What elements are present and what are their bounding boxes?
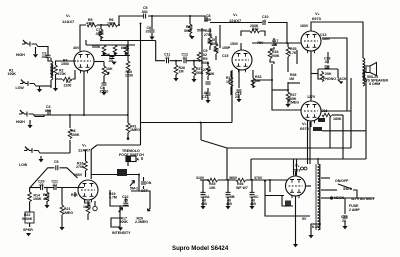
svg-text:310V: 310V [196, 176, 205, 180]
svg-text:HIGH: HIGH [16, 120, 25, 124]
svg-text:2 AMP: 2 AMP [349, 208, 360, 212]
svg-text:450: 450 [201, 202, 207, 206]
svg-text:LOW: LOW [19, 163, 28, 167]
svg-text:75V: 75V [257, 41, 264, 45]
svg-text:.001: .001 [141, 10, 148, 14]
svg-text:.05: .05 [95, 32, 100, 36]
svg-text:ON: ON [146, 181, 152, 185]
svg-text:20K: 20K [325, 72, 332, 76]
svg-text:1500: 1500 [61, 62, 69, 66]
svg-text:10K: 10K [209, 186, 216, 190]
svg-text:1MEG: 1MEG [289, 101, 299, 105]
svg-text:PHONO JACK: PHONO JACK [323, 77, 347, 81]
svg-text:20: 20 [146, 30, 150, 34]
svg-text:10K: 10K [106, 67, 113, 71]
svg-text:100K: 100K [71, 133, 80, 137]
svg-text:C5: C5 [54, 160, 59, 164]
svg-text:2.2MEG: 2.2MEG [135, 220, 148, 224]
svg-text:C15: C15 [222, 54, 229, 58]
svg-text:C15: C15 [202, 95, 209, 99]
svg-text:160V: 160V [300, 24, 309, 28]
svg-text:600K: 600K [121, 46, 130, 50]
svg-text:250K: 250K [206, 72, 215, 76]
svg-text:LOW: LOW [16, 86, 25, 90]
svg-text:.005: .005 [204, 18, 211, 22]
svg-text:450: 450 [226, 202, 232, 206]
svg-text:ON/OFF: ON/OFF [335, 179, 349, 183]
svg-text:180V: 180V [322, 37, 331, 41]
svg-text:25: 25 [235, 95, 239, 99]
svg-text:500K: 500K [92, 45, 101, 49]
svg-text:150V: 150V [230, 42, 239, 46]
svg-text:470K: 470K [58, 72, 67, 76]
svg-text:127V: 127V [307, 95, 316, 99]
svg-text:V₆: V₆ [295, 163, 300, 168]
svg-text:5V: 5V [302, 217, 307, 221]
svg-text:270K: 270K [76, 165, 85, 169]
svg-text:25/10: 25/10 [100, 90, 109, 94]
svg-text:40V: 40V [73, 46, 80, 50]
svg-text:465: 465 [43, 197, 49, 201]
svg-text:.02: .02 [182, 56, 187, 60]
svg-text:5600K: 5600K [22, 217, 33, 221]
svg-text:.02: .02 [52, 183, 57, 187]
svg-text:200K: 200K [250, 24, 259, 28]
svg-text:450: 450 [250, 202, 256, 206]
svg-text:6973: 6973 [312, 16, 322, 21]
svg-text:56K: 56K [254, 79, 261, 83]
svg-text:370V: 370V [254, 176, 263, 180]
svg-text:1MEG: 1MEG [63, 211, 73, 215]
svg-text:INTENSITY: INTENSITY [112, 231, 131, 235]
svg-text:.05: .05 [39, 183, 44, 187]
svg-text:.02: .02 [165, 56, 170, 60]
svg-text:R16: R16 [71, 193, 78, 197]
svg-text:SPKR: SPKR [23, 228, 33, 232]
svg-text:V₂: V₂ [233, 12, 238, 17]
svg-text:150P: 150P [222, 46, 231, 50]
svg-text:500K: 500K [201, 61, 210, 65]
svg-text:5Y3: 5Y3 [294, 169, 300, 173]
svg-text:WF W7: WF W7 [236, 186, 248, 190]
svg-text:.02: .02 [324, 60, 329, 64]
svg-text:1MEG: 1MEG [130, 128, 140, 132]
svg-text:180K: 180K [333, 117, 342, 121]
svg-text:12AX7: 12AX7 [62, 19, 75, 24]
svg-text:100K: 100K [107, 22, 116, 26]
svg-text:.05: .05 [123, 199, 128, 203]
svg-text:C16: C16 [321, 109, 328, 113]
svg-text:.05: .05 [108, 59, 113, 63]
svg-text:500P: 500P [184, 29, 193, 33]
svg-text:1K: 1K [226, 80, 231, 84]
svg-text:2000: 2000 [210, 42, 218, 46]
svg-text:20: 20 [342, 219, 346, 223]
svg-text:A: A [137, 158, 140, 162]
svg-text:12AX7: 12AX7 [78, 148, 91, 153]
svg-text:NEON: NEON [334, 196, 345, 200]
svg-text:200K: 200K [271, 54, 280, 58]
svg-text:1M: 1M [179, 70, 184, 74]
svg-text:360V: 360V [229, 176, 238, 180]
svg-text:100K: 100K [8, 72, 17, 76]
svg-text:.05: .05 [272, 43, 277, 47]
svg-text:8 OHM: 8 OHM [369, 82, 380, 86]
svg-text:2200: 2200 [64, 84, 72, 88]
svg-text:500K: 500K [120, 220, 129, 224]
svg-text:260V: 260V [74, 173, 83, 177]
svg-text:270K: 270K [204, 33, 213, 37]
svg-text:4.7M: 4.7M [109, 196, 117, 200]
svg-text:600: 600 [45, 109, 51, 113]
svg-text:1M: 1M [289, 77, 294, 81]
svg-text:117V AC 60CY: 117V AC 60CY [351, 197, 376, 201]
svg-text:2200: 2200 [125, 74, 133, 78]
svg-text:6973: 6973 [300, 126, 310, 131]
svg-text:.1: .1 [263, 19, 266, 23]
svg-text:Supro Model S6424: Supro Model S6424 [172, 245, 229, 252]
svg-text:4.7K: 4.7K [289, 51, 297, 55]
svg-text:.001: .001 [41, 55, 48, 59]
svg-text:1000: 1000 [83, 205, 91, 209]
svg-text:100K: 100K [33, 197, 42, 201]
svg-text:5M-2: 5M-2 [130, 187, 138, 191]
svg-text:12AX7: 12AX7 [229, 18, 242, 23]
svg-text:FOOT SWITCH: FOOT SWITCH [119, 153, 144, 157]
svg-text:SW-1: SW-1 [343, 187, 352, 191]
svg-text:HIGH: HIGH [16, 53, 25, 57]
svg-text:OFF: OFF [141, 189, 149, 193]
svg-text:470K: 470K [86, 22, 95, 26]
svg-text:V₁: V₁ [66, 13, 71, 18]
svg-text:6.3V: 6.3V [312, 225, 320, 229]
